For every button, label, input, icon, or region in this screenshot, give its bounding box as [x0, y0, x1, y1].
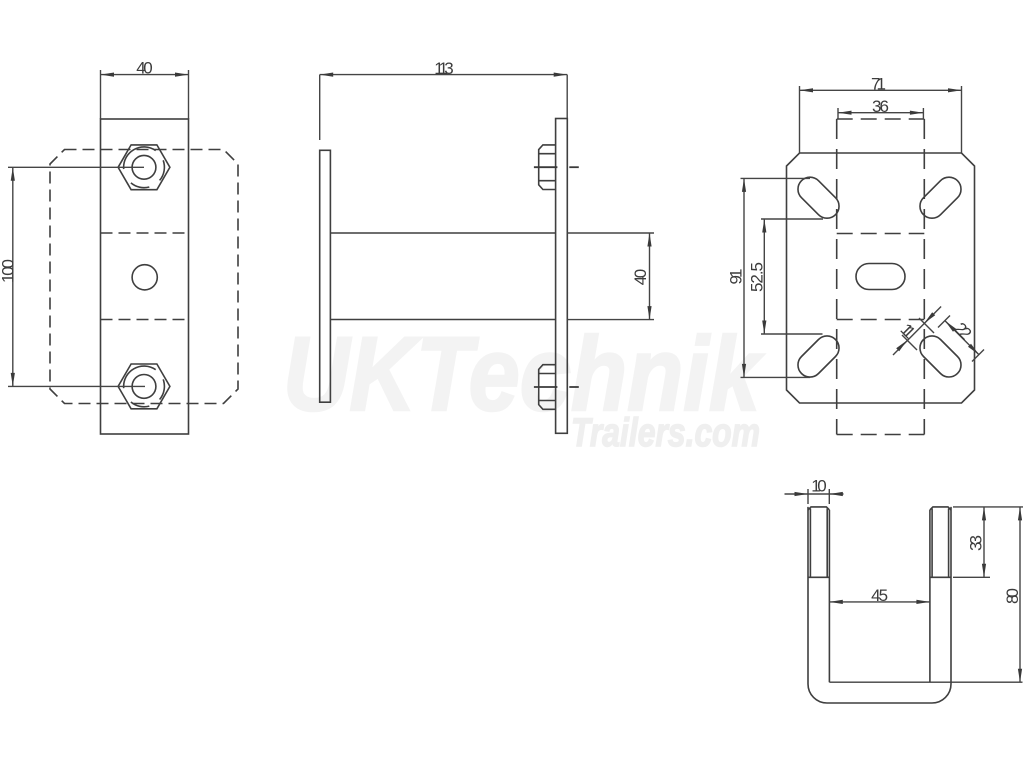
dim 36 arrows [838, 111, 852, 115]
front plate side profile [556, 119, 568, 434]
svg-text:22: 22 [951, 319, 976, 344]
dim 100 (left view) [8, 166, 144, 168]
svg-text:113: 113 [434, 59, 454, 78]
front plate outline [101, 119, 189, 434]
dim 52.5 (right view) [761, 218, 823, 220]
svg-text:36: 36 [872, 97, 889, 116]
bottom-left slot [798, 336, 839, 377]
dim 33 + 80 top ext (u-bolt) [953, 506, 1023, 508]
left leg top cap [808, 507, 829, 510]
dim 11 (right view, diagonal) [893, 307, 941, 356]
hidden tube top edge [837, 233, 925, 235]
dim 91 (right view) [741, 177, 811, 179]
top hex nut [118, 145, 170, 190]
dim 40 arrows [101, 73, 115, 77]
dimensions [8, 70, 1023, 682]
dim 45 arrows [829, 600, 843, 604]
right leg thread bottom line [930, 576, 951, 578]
svg-text:52.5: 52.5 [748, 262, 767, 292]
dim 113 arrows [320, 73, 334, 77]
left leg thread bottom line [808, 576, 829, 578]
tube top line [330, 232, 555, 234]
dim 45 (u-bolt) [829, 601, 930, 603]
dim 40 (left view) extension+line [100, 70, 102, 119]
dim 33 arrows [982, 507, 986, 521]
right leg inner edge [929, 510, 931, 682]
dim 52.5 arrows [762, 219, 766, 233]
dim 22 arrows [945, 321, 956, 332]
tube bottom line [330, 319, 555, 321]
right leg thread minor lines [931, 509, 933, 578]
dim 10 (u-bolt) [807, 489, 809, 504]
top-right slot [920, 177, 961, 218]
bottom-right slot [920, 336, 961, 377]
bottom bolt nut side view [539, 365, 556, 410]
dim 36 (right view) [837, 108, 839, 119]
svg-text:40: 40 [631, 269, 650, 285]
back plate side profile [320, 150, 331, 402]
center hole [132, 265, 157, 290]
hidden tube bottom edge [837, 319, 925, 321]
dim 80 arrows [1018, 507, 1022, 521]
dim 80 (u-bolt) [1019, 507, 1021, 682]
top-left slot [798, 177, 839, 218]
hidden front plate top edge [837, 118, 925, 120]
dim 40 tube arrows [647, 233, 651, 247]
bolt centre line top [534, 166, 558, 168]
hidden tube bottom wall [101, 319, 189, 321]
svg-text:11: 11 [897, 320, 920, 343]
left leg inner edge [828, 510, 830, 682]
dim 22 (right view, diagonal) [945, 321, 979, 355]
u-bolt outer contour [808, 507, 951, 703]
dim 113 (middle view) [319, 75, 321, 140]
svg-text:71: 71 [871, 74, 886, 93]
dim 91 arrows [742, 178, 746, 192]
dimension texts [0, 59, 1022, 605]
svg-text:91: 91 [727, 269, 746, 285]
svg-text:33: 33 [967, 535, 986, 551]
dim 100 arrows [11, 167, 15, 181]
top bolt nut side view [539, 145, 556, 190]
back plate face outline [787, 153, 975, 403]
svg-text:45: 45 [871, 586, 888, 605]
bolt centre line bottom [534, 386, 558, 388]
bottom hex nut [118, 364, 170, 409]
hidden front plate bottom edge [837, 434, 925, 436]
arrowheads [11, 73, 1022, 683]
svg-text:10: 10 [811, 477, 827, 496]
watermark logo text [283, 316, 764, 455]
dim 10 arrows [795, 492, 809, 496]
svg-text:40: 40 [136, 59, 152, 78]
dim 11 arrows [924, 312, 935, 323]
inner bottom line extending as dim-80 extension [829, 681, 1022, 683]
right leg top cap [930, 507, 951, 510]
hidden front plate right edge [923, 119, 925, 435]
hidden back plate (dashed octagon) [50, 150, 238, 404]
svg-text:80: 80 [1003, 588, 1022, 604]
dim 40 (tube, middle view) [567, 232, 654, 234]
svg-text:100: 100 [0, 259, 17, 283]
dim 71 arrows [800, 88, 814, 92]
left leg thread minor lines [809, 509, 811, 578]
hidden front plate left edge [836, 119, 838, 435]
svg-text:Trailers.com: Trailers.com [571, 411, 760, 455]
hidden tube top wall [101, 232, 189, 234]
center slot [856, 264, 905, 290]
dim 71 (right view) [799, 86, 801, 153]
